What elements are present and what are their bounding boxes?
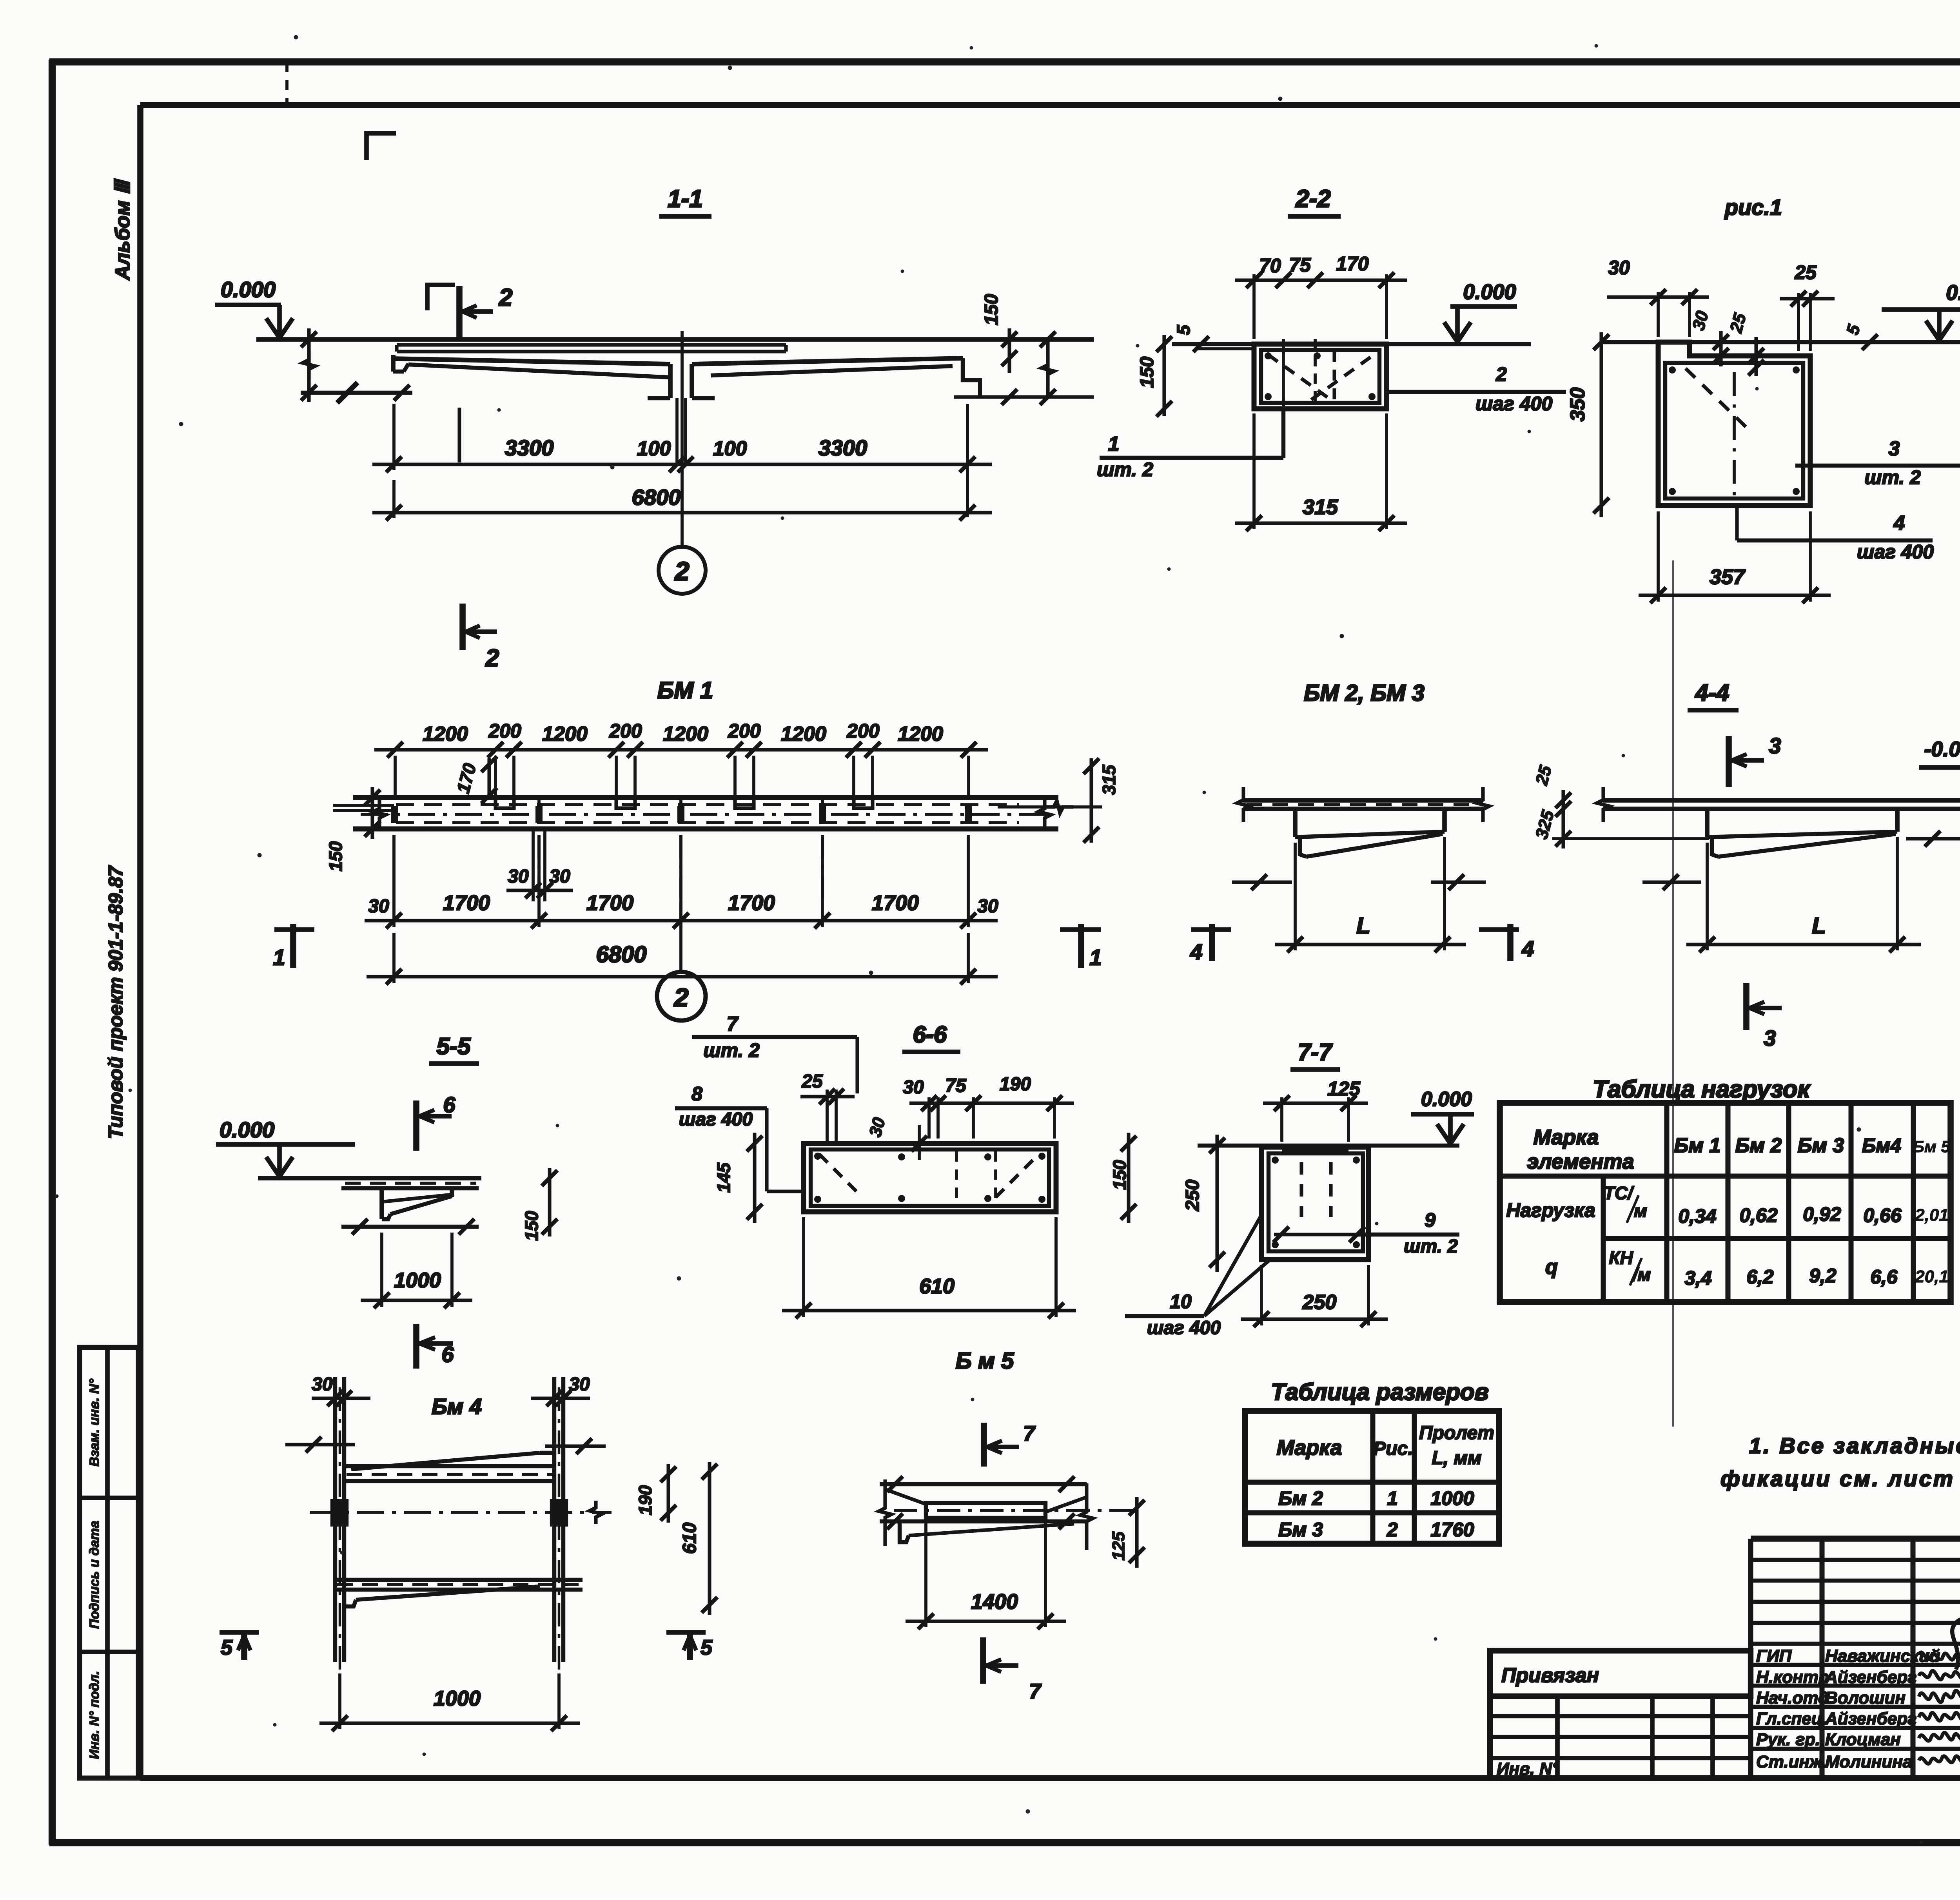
svg-text:фикации см. лист КЖ. 16.: фикации см. лист КЖ. 16. (1720, 1466, 1960, 1491)
privyazan box (1490, 1651, 1751, 1696)
7-7 inner tie line (1274, 1233, 1364, 1236)
BM4 dim 30 right (531, 1396, 590, 1400)
svg-text:2: 2 (674, 557, 690, 586)
dim 25 rotated 4-4 (1561, 790, 1565, 819)
beam section 2-2 inner (1261, 350, 1379, 403)
svg-text:Таблица нагрузок: Таблица нагрузок (1593, 1076, 1811, 1103)
svg-text:100: 100 (713, 437, 747, 460)
svg-text:элемента: элемента (1527, 1150, 1634, 1173)
svg-text:1200: 1200 (781, 723, 826, 745)
axis bubble 2 (659, 547, 706, 594)
svg-text:Гл.спец.: Гл.спец. (1756, 1709, 1827, 1728)
svg-text:7: 7 (727, 1013, 739, 1035)
svg-text:1: 1 (1089, 945, 1102, 970)
svg-text:6,2: 6,2 (1746, 1266, 1774, 1288)
fold mark top (285, 62, 289, 105)
svg-text:150: 150 (1137, 357, 1158, 388)
BM4 right rib (552, 1377, 556, 1662)
svg-text:1000: 1000 (434, 1687, 481, 1710)
svg-text:шт. 2: шт. 2 (1404, 1236, 1458, 1257)
svg-text:20,1: 20,1 (1915, 1267, 1949, 1286)
svg-text:Рук. гр.: Рук. гр. (1756, 1730, 1820, 1749)
svg-text:5: 5 (1173, 325, 1194, 335)
ground line 1-1 (256, 337, 1094, 342)
rebar dots fig.1 (1669, 366, 1676, 373)
svg-text:шт. 2: шт. 2 (1864, 466, 1921, 488)
svg-text:100: 100 (637, 437, 671, 460)
BM2/3 dim L (1294, 843, 1297, 950)
section cut marker 4 left (1209, 924, 1215, 961)
BM1 axis dashdot (361, 813, 1054, 816)
svg-text:ГИП: ГИП (1756, 1646, 1792, 1666)
svg-text:30: 30 (312, 1374, 333, 1395)
svg-text:Нагрузка: Нагрузка (1506, 1199, 1595, 1221)
BM1 rib axis marks (391, 806, 398, 823)
size table frame (1245, 1411, 1499, 1544)
svg-text:Марка: Марка (1534, 1126, 1599, 1149)
svg-text:0.000: 0.000 (220, 1117, 274, 1142)
svg-text:4: 4 (1190, 939, 1202, 964)
BM4 dim 1000 (338, 1673, 341, 1729)
BM1 dim 6800 (392, 933, 396, 983)
dim 30 rotated fig.1 (1719, 331, 1722, 366)
callout 2/shag400 (1387, 390, 1566, 394)
beam section fig.1 outer (1658, 342, 1810, 506)
dim 350 left fig.1 (1599, 332, 1603, 517)
7-7 seat recess (1282, 1149, 1348, 1153)
svg-text:Бм4: Бм4 (1862, 1135, 1901, 1157)
section cut marker 5 left (241, 1631, 247, 1660)
BM2/3 slab lines (1243, 798, 1483, 803)
svg-text:1700: 1700 (728, 891, 775, 915)
svg-text:1000: 1000 (1430, 1487, 1474, 1509)
svg-text:200: 200 (846, 720, 880, 742)
svg-text:190: 190 (635, 1485, 655, 1515)
dim 315 below 2-2 (1252, 413, 1256, 529)
stirrup dashes 6-6 (819, 1154, 862, 1197)
load table frame (1500, 1103, 1951, 1302)
dims 70 75 170 above 2-2 (1252, 274, 1256, 339)
dims 30 75 190 6-6 (927, 1097, 931, 1139)
svg-text:250: 250 (1182, 1180, 1203, 1211)
section cut marker 5 right (687, 1631, 693, 1660)
svg-text:БМ 1: БМ 1 (657, 677, 713, 703)
svg-text:1760: 1760 (1430, 1519, 1474, 1541)
svg-text:Бм 2: Бм 2 (1735, 1134, 1782, 1157)
svg-text:150: 150 (325, 841, 346, 871)
crop corner mark 2 (427, 285, 455, 310)
svg-text:8: 8 (691, 1083, 702, 1105)
section cut marker 7 bottom (BM5) (980, 1637, 986, 1684)
svg-text:30: 30 (903, 1077, 924, 1098)
svg-text:75: 75 (1289, 254, 1311, 276)
svg-text:q: q (1545, 1256, 1558, 1278)
stirrup dashes 7-7 (1299, 1162, 1303, 1217)
svg-text:6: 6 (443, 1092, 456, 1117)
svg-text:3300: 3300 (818, 435, 867, 460)
svg-text:250: 250 (1302, 1291, 1337, 1314)
svg-text:1700: 1700 (586, 891, 633, 915)
svg-text:шт. 2: шт. 2 (1097, 459, 1153, 480)
5-5 slab band (341, 1186, 479, 1190)
4-4 beam profile (1705, 809, 1710, 837)
svg-text:1: 1 (1387, 1487, 1398, 1509)
section cut marker 1 right (1078, 924, 1084, 968)
dim 610 6-6 (802, 1217, 805, 1317)
dim 150 left of 2-2 (1162, 335, 1166, 416)
svg-text:6,6: 6,6 (1870, 1266, 1898, 1288)
svg-text:357: 357 (1710, 565, 1746, 589)
svg-text:2,01: 2,01 (1915, 1206, 1949, 1225)
svg-text:4-4: 4-4 (1695, 680, 1730, 706)
svg-text:5: 5 (701, 1636, 713, 1659)
svg-text:190: 190 (1000, 1074, 1031, 1095)
svg-text:0.000: 0.000 (221, 277, 276, 302)
svg-text:315: 315 (1303, 495, 1338, 519)
dim 250 left 7-7 (1215, 1135, 1219, 1272)
big signature flourish (1952, 1619, 1960, 1670)
svg-text:150: 150 (1109, 1160, 1130, 1190)
paper crease line (1672, 560, 1674, 1427)
svg-text:145: 145 (713, 1162, 734, 1193)
dim 125 7-7 (1280, 1097, 1283, 1142)
page outer border left (49, 60, 56, 1845)
BM4 dim 190 rotated (666, 1464, 670, 1523)
svg-text:Привязан: Привязан (1501, 1664, 1599, 1687)
BM1 left slab ext lines (333, 804, 394, 807)
BM4 rib crossing marks (332, 1501, 347, 1525)
svg-text:25: 25 (801, 1071, 823, 1092)
svg-text:Клоцман: Клоцман (1825, 1730, 1901, 1749)
svg-text:10: 10 (1170, 1291, 1192, 1313)
beam section fig.1 inner (1665, 363, 1803, 499)
svg-text:0,34: 0,34 (1678, 1205, 1716, 1227)
svg-text:0,62: 0,62 (1739, 1204, 1778, 1226)
svg-text:3: 3 (1764, 1026, 1776, 1050)
BM5 dim 125 rotated (1135, 1497, 1138, 1568)
BM5 left break (879, 1479, 891, 1546)
svg-text:ТС/: ТС/ (1604, 1183, 1634, 1203)
svg-text:L, мм: L, мм (1432, 1448, 1481, 1469)
svg-text:1200: 1200 (898, 723, 943, 745)
section cut marker 6 top (5-5) (413, 1100, 419, 1151)
svg-text:3: 3 (1769, 733, 1781, 758)
svg-text:1: 1 (1108, 433, 1120, 455)
svg-text:Альбом Ⅲ: Альбом Ⅲ (111, 178, 134, 281)
svg-text:5-5: 5-5 (437, 1033, 471, 1059)
svg-text:Айзенберг: Айзенберг (1825, 1709, 1917, 1728)
svg-text:КН: КН (1609, 1247, 1633, 1268)
svg-text:3,4: 3,4 (1684, 1267, 1712, 1289)
svg-text:Молинина: Молинина (1825, 1752, 1912, 1771)
svg-text:Бм 1: Бм 1 (1674, 1134, 1721, 1157)
svg-text:Айзенберг: Айзенберг (1825, 1668, 1917, 1687)
BM1 rib axes (537, 798, 541, 901)
svg-text:Б м 5: Б м 5 (956, 1348, 1014, 1374)
svg-text:Подпись и дата: Подпись и дата (87, 1521, 102, 1629)
right break dim line 1-1 (1046, 339, 1049, 397)
dim line 3300/100/100/3300 (392, 404, 396, 470)
5-5 dim 150 (548, 1168, 551, 1236)
dim 25 top right fig.1 (1797, 293, 1800, 351)
inner frame top line (140, 102, 1960, 108)
BM1 bottom rebar dashed (396, 821, 1019, 824)
page outer border bottom (clipped by scan) (49, 1839, 1960, 1846)
svg-text:шаг 400: шаг 400 (1475, 393, 1552, 415)
svg-text:70: 70 (1259, 255, 1281, 277)
tick 5 fig.1 (1862, 334, 1878, 350)
scan specks (294, 35, 298, 40)
beam section 7-7 inner (1269, 1153, 1363, 1251)
svg-text:1200: 1200 (423, 723, 468, 745)
cut plane 2 through beam (457, 408, 461, 462)
BM5 top edge (880, 1482, 1087, 1486)
BM1 beam band (353, 795, 1058, 800)
margin stamp boxes (80, 1347, 138, 1778)
stirrup dashes 2-2 (1268, 355, 1331, 400)
dim 250 bottom 7-7 (1260, 1265, 1263, 1325)
beam 1-1 slab bottom (394, 359, 670, 364)
inner frame bottom line (140, 1775, 1960, 1781)
svg-text:150: 150 (521, 1211, 542, 1241)
dim line 6800 (392, 480, 396, 518)
svg-text:9: 9 (1425, 1209, 1436, 1231)
svg-text:2: 2 (673, 983, 689, 1012)
page outer border top (49, 58, 1960, 65)
BM1 dim 170 rotated (487, 758, 491, 796)
beam section 2-2 outer (1254, 344, 1387, 409)
svg-text:Бм 4: Бм 4 (432, 1394, 482, 1419)
svg-text:1700: 1700 (872, 891, 919, 915)
axis dash fig.1 (1733, 372, 1736, 504)
BM4 top flange (351, 1453, 540, 1469)
svg-text:30: 30 (977, 896, 998, 917)
rebar dots 6-6 (814, 1153, 821, 1160)
svg-text:Н.контр: Н.контр (1756, 1668, 1829, 1687)
svg-text:шт. 2: шт. 2 (703, 1039, 760, 1061)
svg-text:L: L (1356, 913, 1370, 939)
svg-text:9,2: 9,2 (1809, 1265, 1837, 1287)
BM1 top dim line 1200/200 (394, 756, 397, 796)
svg-text:1000: 1000 (394, 1269, 441, 1292)
svg-text:0,66: 0,66 (1863, 1204, 1902, 1226)
svg-text:Марка: Марка (1277, 1436, 1342, 1459)
crop corner mark (367, 133, 396, 160)
BM4 dim 610 rotated (708, 1462, 711, 1615)
dim 325 rotated 4-4 (1561, 819, 1565, 848)
svg-text:30: 30 (1608, 257, 1630, 279)
7-7 ground line (1198, 1144, 1459, 1148)
dim 30 rotated 6-6 (911, 1136, 927, 1151)
svg-text:1: 1 (273, 945, 285, 970)
svg-text:Типовой проект 901-1-89.87: Типовой проект 901-1-89.87 (105, 865, 127, 1139)
beam 1-1 left ref line (301, 391, 412, 395)
beam 1-1 web taper left (408, 364, 670, 377)
svg-text:шаг 400: шаг 400 (679, 1109, 753, 1130)
dim 145 left 6-6 (753, 1133, 756, 1223)
svg-text:L: L (1812, 913, 1826, 939)
svg-text:1. Все закладные элементы учте: 1. Все закладные элементы учтены в общей… (1749, 1433, 1960, 1458)
svg-text:170: 170 (1336, 253, 1369, 275)
svg-text:рис.1: рис.1 (1724, 195, 1782, 219)
svg-text:30: 30 (549, 866, 570, 887)
svg-text:200: 200 (488, 720, 521, 742)
svg-text:1200: 1200 (542, 723, 588, 745)
svg-text:-0.005: -0.005 (1924, 738, 1960, 761)
BM4 ref ticks top (285, 1443, 355, 1446)
beam 1-1 right end step (963, 358, 980, 397)
svg-text:25: 25 (1794, 261, 1817, 283)
BM2/3 bottom ref lines (1232, 880, 1292, 884)
svg-text:200: 200 (728, 720, 761, 742)
BM4 dim 30 left (312, 1396, 370, 1400)
BM1 top rebar dashed (396, 803, 1019, 806)
dim 25 6-6 (826, 1090, 829, 1144)
svg-text:0,92: 0,92 (1803, 1203, 1841, 1225)
BM4 left rib (333, 1377, 337, 1662)
svg-text:0.000: 0.000 (1463, 280, 1516, 304)
5-5 bottom line (341, 1225, 479, 1229)
svg-text:2: 2 (485, 645, 499, 672)
svg-text:4: 4 (1521, 936, 1534, 961)
svg-text:Волошин: Волошин (1825, 1688, 1906, 1708)
BM1 axis bubble 2 (657, 972, 706, 1021)
5-5 dim 1000 (380, 1233, 383, 1307)
svg-text:7-7: 7-7 (1298, 1039, 1333, 1065)
svg-text:1200: 1200 (663, 723, 708, 745)
dim 25 rotated fig.1 (1754, 337, 1758, 376)
svg-text:125: 125 (1109, 1532, 1128, 1561)
svg-text:1700: 1700 (443, 891, 490, 915)
svg-text:125: 125 (1327, 1078, 1361, 1100)
BM1 dim 150 left rotated (370, 787, 374, 839)
beam 1-1 left end (391, 355, 396, 372)
section cut marker 2 bottom (459, 604, 466, 650)
BM1 shear key notches (495, 798, 514, 808)
svg-text:6800: 6800 (632, 485, 681, 509)
svg-text:2: 2 (1495, 363, 1507, 385)
title block staff grid (1751, 1536, 1960, 1542)
svg-text:6-6: 6-6 (913, 1021, 947, 1048)
svg-text:2-2: 2-2 (1295, 185, 1331, 212)
svg-text:5: 5 (221, 1636, 233, 1659)
BM5 beam body (926, 1503, 1045, 1518)
BM4 axis (310, 1511, 612, 1514)
BM4 bottom flange (335, 1578, 583, 1582)
svg-text:4: 4 (1893, 512, 1905, 535)
BM5 dim 1400 (924, 1523, 927, 1627)
beam 1-1 top rebar lines (397, 343, 786, 346)
svg-text:Нач.отд: Нач.отд (1756, 1688, 1829, 1708)
svg-text:3: 3 (1889, 437, 1900, 460)
inner frame left line (137, 105, 143, 1778)
BM5 right break (1080, 1483, 1093, 1550)
dim 357 below fig.1 (1657, 511, 1660, 602)
svg-text:315: 315 (1099, 764, 1119, 795)
callout 4/shag400 (1735, 506, 1739, 540)
svg-text:200: 200 (609, 720, 642, 742)
4-4 bottom ref lines (1642, 880, 1701, 884)
svg-text:75: 75 (945, 1075, 967, 1096)
svg-text:БМ 2, БМ 3: БМ 2, БМ 3 (1304, 680, 1425, 706)
svg-text:0.000: 0.000 (1946, 281, 1960, 305)
section cut marker 2 top (456, 286, 463, 338)
svg-text:150: 150 (981, 294, 1002, 325)
svg-text:Бм 3: Бм 3 (1278, 1519, 1323, 1541)
svg-text:2: 2 (499, 284, 512, 311)
svg-text:Взам. инв. N°: Взам. инв. N° (87, 1379, 102, 1467)
svg-text:Ст.инж.: Ст.инж. (1756, 1752, 1827, 1771)
svg-text:Рис.: Рис. (1373, 1438, 1413, 1459)
left break dim 1-1 (307, 328, 310, 402)
svg-text:Инв. N°: Инв. N° (1497, 1759, 1559, 1779)
svg-text:шаг 400: шаг 400 (1857, 541, 1934, 563)
section cut marker 1 left (290, 924, 296, 968)
stirrup dash diagonal fig.1 (1686, 368, 1752, 433)
svg-text:Таблица размеров: Таблица размеров (1271, 1379, 1489, 1405)
dim 150 right of 1-1 (1007, 328, 1011, 373)
ground line fig.1 (1603, 340, 1960, 344)
section cut marker 6 bottom (5-5) (413, 1324, 419, 1369)
svg-text:610: 610 (919, 1275, 955, 1298)
BM2/3 beam profile (1293, 809, 1298, 837)
svg-text:7: 7 (1023, 1422, 1036, 1445)
svg-text:3300: 3300 (505, 435, 554, 460)
BM5 bottom edge (880, 1519, 1087, 1523)
4-4 dim L (1706, 843, 1709, 950)
svg-text:Бм 2: Бм 2 (1278, 1487, 1323, 1509)
svg-text:Бм 3: Бм 3 (1798, 1134, 1844, 1157)
BM1 dim 315 right rotated (998, 805, 1102, 809)
svg-text:Инв. N° подл.: Инв. N° подл. (87, 1671, 102, 1759)
svg-text:0.000: 0.000 (1421, 1088, 1472, 1111)
svg-text:6: 6 (441, 1342, 454, 1367)
section cut marker 3 top (1726, 736, 1732, 787)
svg-text:30: 30 (569, 1374, 590, 1395)
svg-text:30: 30 (508, 866, 529, 887)
BM1 rib 30/30 dim (532, 829, 535, 901)
5-5 ground line (258, 1176, 481, 1180)
beam section 6-6 outer (804, 1144, 1056, 1212)
dim 30 top fig.1 (1657, 292, 1660, 337)
section cut marker 7 top (BM5) (981, 1423, 987, 1467)
svg-text:6800: 6800 (596, 942, 646, 967)
BM5 bottom boot and taper (900, 1521, 909, 1542)
beam section 7-7 outer (1261, 1147, 1368, 1260)
svg-text:7: 7 (1029, 1680, 1042, 1703)
svg-text:шаг 400: шаг 400 (1147, 1318, 1221, 1338)
svg-text:2: 2 (1387, 1519, 1398, 1541)
svg-text:Пролет: Пролет (1419, 1423, 1494, 1443)
svg-text:1400: 1400 (971, 1590, 1018, 1614)
rebar dots 2-2 (1265, 393, 1272, 400)
svg-text:1-1: 1-1 (668, 185, 703, 212)
beam 1-1 center rib (668, 364, 673, 398)
BM5 taper lines (885, 1489, 926, 1504)
ground line left of 2-2 (1172, 342, 1254, 346)
svg-text:Бм 5: Бм 5 (1913, 1137, 1950, 1156)
beam 1-1 axis line (681, 331, 684, 547)
beam section 6-6 inner (811, 1149, 1049, 1206)
svg-text:610: 610 (679, 1523, 700, 1554)
5-5 beam web (379, 1188, 384, 1219)
dim 150 right 6-6 (1127, 1133, 1130, 1223)
svg-text:350: 350 (1566, 388, 1589, 422)
rebar dots 7-7 (1272, 1157, 1279, 1164)
svg-text:30: 30 (368, 896, 389, 917)
section cut marker 3 bottom (1743, 983, 1749, 1030)
section cut marker 4 right (1507, 924, 1514, 961)
